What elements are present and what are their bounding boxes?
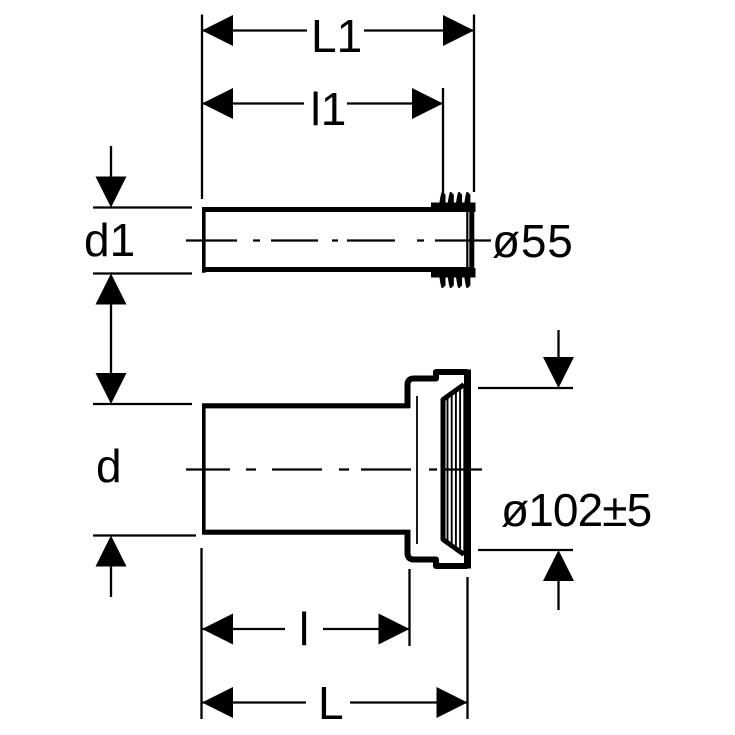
dimension diameter 102 arrow bottom (up) (557, 558, 559, 610)
pipe 2 seal ribs (448, 384, 465, 554)
svg-text:ø102±5: ø102±5 (501, 484, 651, 536)
dimension diameter 102 extension line bottom (478, 549, 573, 551)
pipe 1 (top, d1) body outline (202, 207, 472, 272)
dimension L1 arrow right (443, 15, 474, 46)
pipe 2 socket outer shell (408, 370, 468, 569)
pipe 2 (bottom, d) centre line (186, 468, 482, 470)
pipe 1 end face outer line (469, 207, 474, 272)
svg-text:ø55: ø55 (492, 215, 574, 267)
pipe 1 thread serration top (431, 192, 476, 212)
dimension l1 arrow right (412, 88, 443, 119)
dimension d1 extension line top (93, 206, 192, 208)
svg-text:L1: L1 (311, 10, 362, 62)
pipe 2 mouth line inside socket (416, 396, 418, 544)
dimension d extension line bottom (93, 534, 196, 536)
pipe 1 end face inner line (466, 212, 468, 268)
dimension l arrow right (379, 614, 410, 645)
dimension l arrow left (202, 614, 233, 645)
dimension L1 extension line left (201, 15, 203, 200)
dimension diameter 102 arrow top (down) (557, 330, 559, 380)
dimension L arrow right (437, 687, 468, 718)
dimension L1 arrow left (202, 15, 233, 46)
dimension d arrow top (down) (96, 373, 127, 404)
dimension d1 arrow top (110, 146, 112, 200)
dimension L line (202, 701, 306, 703)
svg-text:L: L (318, 677, 344, 729)
dimension diameter 102 extension line top (478, 387, 573, 389)
dimension l1 arrow left (202, 88, 233, 119)
pipe 1 (top, d1) centre line (186, 239, 491, 241)
dimension L arrow left (202, 687, 233, 718)
dimension L extension line right (466, 577, 468, 719)
pipe 2 socket right edge (464, 370, 471, 569)
dimension d1 extension line bottom (93, 272, 192, 274)
svg-text:d1: d1 (84, 214, 135, 266)
dimension d arrow bottom (up) (110, 543, 112, 597)
svg-text:d: d (96, 440, 122, 492)
dimension d extension line top (93, 403, 192, 405)
dimension l line (202, 628, 285, 630)
chain line between d1 and d arrows (110, 280, 112, 398)
dimension d1 arrow bottom (up) (96, 274, 127, 305)
svg-text:l: l (299, 603, 309, 655)
svg-text:l1: l1 (311, 83, 347, 135)
dimension l1 line (202, 102, 304, 104)
pipe 2 seal insert outline (443, 385, 464, 555)
dimension L1 extension line right (473, 15, 475, 193)
pipe 1 thread serration bottom (431, 268, 476, 288)
pipe 2 (bottom, d) body outline (202, 404, 410, 535)
dimension L1 line (202, 29, 307, 31)
dimension l1 extension line right (442, 88, 444, 193)
dimension l extension line left (shared with L) (200, 548, 202, 719)
dimension l extension line right (408, 569, 410, 646)
